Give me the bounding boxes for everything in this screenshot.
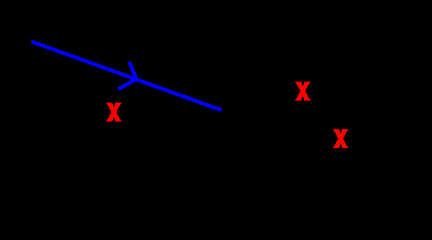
node X3 [333,129,349,148]
arrowhead upper barb [130,63,137,79]
wire blue ray [31,42,221,111]
node X1 [106,103,122,122]
arrowhead lower barb [120,79,136,88]
node X2 [295,82,311,101]
